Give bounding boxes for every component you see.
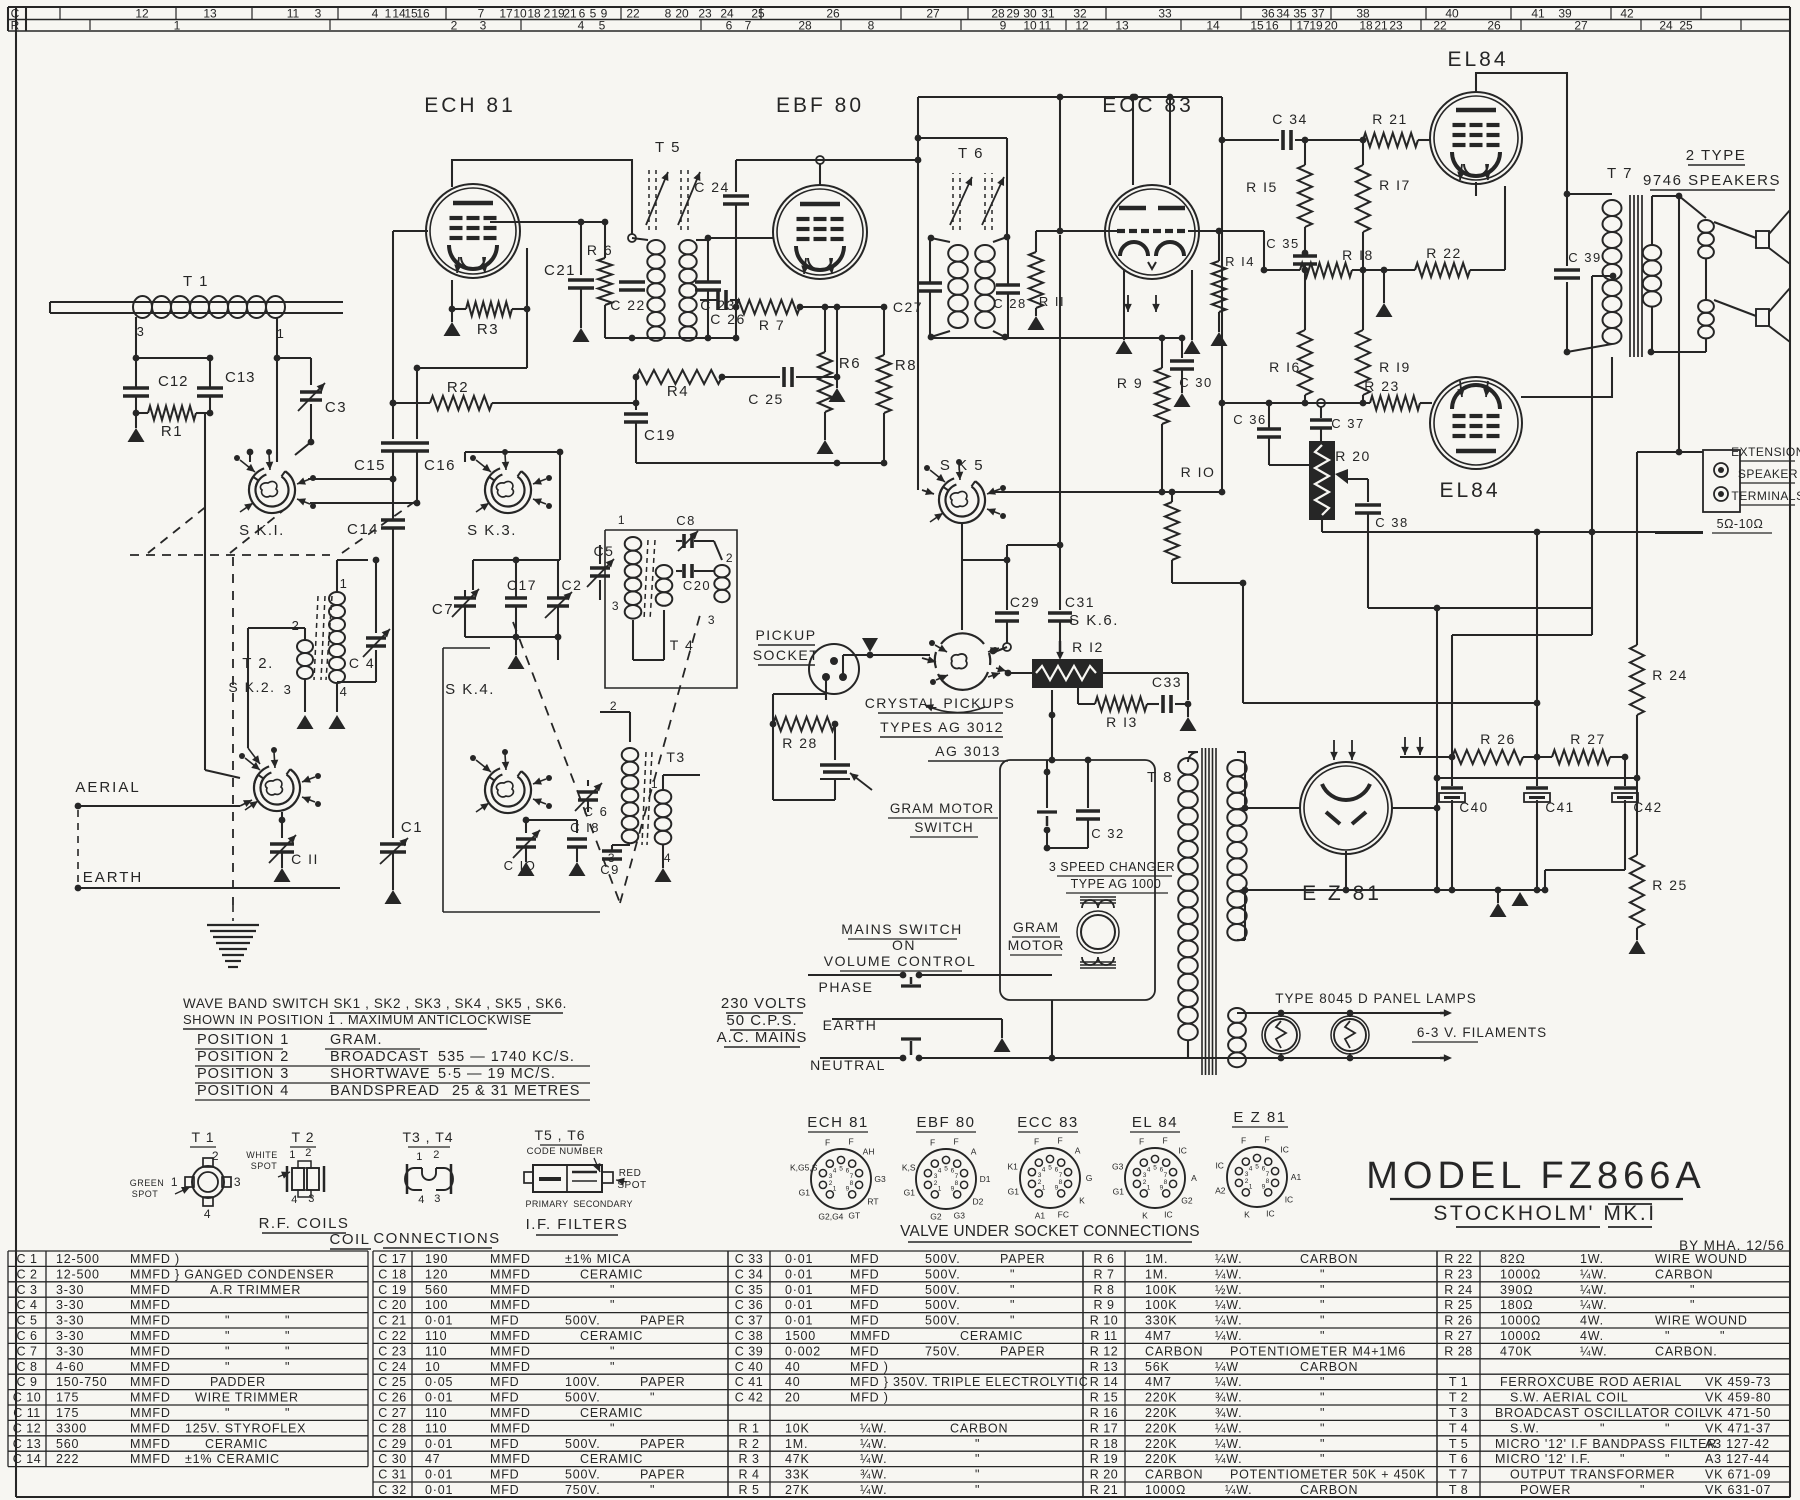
- svg-text:GREEN: GREEN: [130, 1178, 165, 1188]
- svg-text:T 8: T 8: [1147, 769, 1173, 786]
- svg-text:MMFD: MMFD: [130, 1437, 171, 1451]
- svg-text:C1: C1: [401, 819, 423, 836]
- svg-text:9: 9: [846, 1185, 850, 1192]
- svg-text:¼W.: ¼W.: [1580, 1283, 1607, 1297]
- svg-text:C8: C8: [676, 513, 696, 528]
- resistor R13: [1077, 688, 1079, 704]
- svg-text:2: 2: [292, 618, 301, 633]
- svg-text:8: 8: [1059, 1179, 1063, 1186]
- svg-text:": ": [610, 1360, 615, 1374]
- wire bus y608: [1368, 607, 1592, 609]
- svg-text:40: 40: [785, 1375, 801, 1389]
- svg-text:K1: K1: [1007, 1162, 1018, 1172]
- svg-text:3: 3: [137, 324, 146, 339]
- svg-text:¼W.: ¼W.: [860, 1483, 887, 1497]
- svg-text:1: 1: [833, 1185, 837, 1192]
- svg-text:4: 4: [291, 1194, 299, 1206]
- svg-text:27: 27: [926, 7, 940, 21]
- svg-text:5: 5: [839, 1166, 843, 1173]
- switch SK6 contacts: [935, 645, 947, 652]
- capacitor C41: [1536, 757, 1538, 786]
- arrow C31 into R12: [1056, 652, 1064, 660]
- svg-text:C 35: C 35: [735, 1283, 763, 1297]
- svg-text:R 7: R 7: [1094, 1267, 1115, 1281]
- svg-text:C7: C7: [432, 601, 454, 618]
- svg-text:GRAM.: GRAM.: [330, 1032, 383, 1048]
- svg-text:BY MHA. 12/56: BY MHA. 12/56: [1679, 1238, 1785, 1253]
- svg-text:R 18: R 18: [1090, 1437, 1118, 1451]
- svg-text:1W.: 1W.: [1580, 1252, 1604, 1266]
- svg-text:CARBON: CARBON: [1145, 1344, 1203, 1358]
- wire EBF80 down SK5: [917, 97, 919, 478]
- svg-text:G1: G1: [904, 1187, 916, 1197]
- svg-text:MMFD: MMFD: [130, 1375, 171, 1389]
- svg-text:¾W.: ¾W.: [860, 1468, 887, 1482]
- svg-text:R 9: R 9: [1094, 1298, 1115, 1312]
- wire earth dashed: [77, 810, 79, 884]
- svg-text:175: 175: [56, 1391, 79, 1405]
- svg-text:A3 127-42: A3 127-42: [1705, 1437, 1770, 1451]
- svg-text:R 6: R 6: [1094, 1252, 1115, 1266]
- wire ECC83 grid up: [1059, 97, 1061, 231]
- svg-text:T 7: T 7: [1607, 165, 1633, 182]
- resistor R21: [1363, 133, 1418, 147]
- gram motor switch: [1044, 769, 1051, 776]
- svg-text:VK 471-50: VK 471-50: [1705, 1406, 1771, 1420]
- gram motor windings: [1082, 900, 1114, 908]
- svg-text:26: 26: [1487, 19, 1501, 33]
- svg-text:6: 6: [726, 19, 733, 33]
- svg-text:MICRO '12' I.F.: MICRO '12' I.F.: [1495, 1452, 1591, 1466]
- wire ECC83 cathode grounds: [1123, 270, 1125, 340]
- resistor R7: [733, 304, 740, 311]
- heater arrows right pair: [1404, 737, 1406, 755]
- svg-text:BROADCAST OSCILLATOR COIL: BROADCAST OSCILLATOR COIL: [1495, 1406, 1707, 1420]
- wire pickup to SK6: [843, 654, 870, 656]
- capacitor C21: [580, 222, 582, 275]
- resistor R18: [1300, 263, 1352, 277]
- svg-text:3: 3: [234, 1175, 242, 1189]
- wire C29 to SK6: [997, 647, 1007, 651]
- svg-text:5Ω-10Ω: 5Ω-10Ω: [1717, 517, 1764, 531]
- svg-text:": ": [1600, 1421, 1605, 1435]
- svg-text:4: 4: [340, 684, 349, 699]
- svg-text:R 15: R 15: [1090, 1391, 1118, 1405]
- svg-text:R 16: R 16: [1090, 1406, 1118, 1420]
- svg-text:¼W.: ¼W.: [1580, 1344, 1607, 1358]
- svg-text:¼W.: ¼W.: [1215, 1437, 1242, 1451]
- wire EBF80 anode up: [819, 160, 821, 185]
- switch SK5: [939, 481, 985, 523]
- wire below C16: [416, 452, 418, 503]
- wire ECH81 grid3 bus: [490, 221, 605, 223]
- wire C2 down: [557, 637, 559, 660]
- transformer T2 core dashes: [314, 596, 318, 680]
- svg-text:C 17: C 17: [378, 1252, 406, 1266]
- svg-text:3-30: 3-30: [56, 1329, 84, 1343]
- svg-text:C 7: C 7: [17, 1344, 38, 1358]
- wire T1 pin3 to C13: [136, 357, 210, 359]
- wire T2 pin3 down: [304, 678, 306, 712]
- svg-text:C 34: C 34: [1272, 111, 1308, 127]
- svg-text:R I4: R I4: [1225, 254, 1255, 269]
- svg-text:±1% MICA: ±1% MICA: [565, 1252, 631, 1266]
- svg-text:C41: C41: [1545, 800, 1574, 815]
- pickup socket: [809, 644, 859, 694]
- svg-text:MMFD: MMFD: [130, 1421, 171, 1435]
- svg-text:3-30: 3-30: [56, 1314, 84, 1328]
- svg-text:": ": [1320, 1375, 1325, 1389]
- svg-text:C 1: C 1: [17, 1252, 38, 1266]
- svg-text:": ": [1665, 1421, 1670, 1435]
- svg-text:C 13: C 13: [13, 1437, 41, 1451]
- svg-text:": ": [1320, 1283, 1325, 1297]
- svg-text:R 21: R 21: [1090, 1483, 1118, 1497]
- wire into box: [1051, 690, 1053, 760]
- wire T2 pin4 down: [336, 682, 338, 712]
- wire bus y635: [1452, 634, 1592, 636]
- resistor R1: [136, 412, 148, 414]
- svg-text:T3: T3: [666, 749, 685, 765]
- svg-text:C2: C2: [562, 577, 583, 593]
- svg-text:": ": [1010, 1267, 1015, 1281]
- svg-text:IC: IC: [1164, 1210, 1173, 1220]
- svg-text:9: 9: [951, 1185, 955, 1192]
- svg-text:15: 15: [1250, 19, 1264, 33]
- capacitor C13: [197, 386, 223, 390]
- svg-text:FC: FC: [1058, 1210, 1069, 1220]
- transformer T1 coil: [133, 296, 152, 318]
- resistor R3: [449, 306, 456, 313]
- capacitor C11 trimmer: [270, 842, 294, 846]
- svg-text:22: 22: [626, 7, 640, 21]
- svg-text:330K: 330K: [1145, 1314, 1177, 1328]
- svg-text:C 6: C 6: [17, 1329, 38, 1343]
- svg-text:4: 4: [1249, 1166, 1253, 1173]
- wire T2 pin1 up: [336, 560, 338, 592]
- wire HT bus y532: [1322, 531, 1703, 533]
- capacitor C26: [716, 290, 720, 310]
- svg-text:RED: RED: [619, 1168, 642, 1179]
- wire ECC83 anode up: [1132, 97, 1134, 185]
- svg-text:G1: G1: [1113, 1186, 1125, 1196]
- svg-text:10K: 10K: [785, 1421, 810, 1435]
- wire below C14 long vertical: [392, 529, 394, 838]
- svg-text:": ": [1320, 1452, 1325, 1466]
- resistor R4: [633, 374, 640, 381]
- svg-text:3: 3: [612, 599, 620, 613]
- svg-text:500V.: 500V.: [925, 1314, 961, 1328]
- svg-text:T 8: T 8: [1449, 1483, 1468, 1497]
- svg-text:SPOT: SPOT: [251, 1161, 278, 1171]
- svg-text:A1: A1: [1035, 1211, 1046, 1221]
- panel lamp 2: [1334, 1019, 1366, 1051]
- wire EL84 cathode: [1475, 182, 1477, 196]
- parts table grid: [8, 1250, 368, 1252]
- svg-text:": ": [285, 1406, 290, 1420]
- svg-text:WAVE BAND SWITCH SK1 , SK2: WAVE BAND SWITCH SK1 , SK2 , SK3 , SK4 ,…: [183, 996, 567, 1011]
- svg-text:D2: D2: [973, 1196, 984, 1206]
- wire SK3 bus upper: [473, 559, 560, 561]
- svg-text:MFD: MFD: [490, 1314, 519, 1328]
- wire T1 pin3 down: [135, 317, 137, 387]
- switch SK4: [485, 771, 531, 813]
- svg-text:": ": [225, 1314, 230, 1328]
- wire C3 to SK1: [310, 404, 312, 442]
- valve ECC83: [1105, 185, 1199, 279]
- earth wire: [75, 885, 82, 892]
- svg-text:2: 2: [451, 19, 458, 33]
- svg-text:PAPER: PAPER: [640, 1314, 685, 1328]
- svg-text:CARBON: CARBON: [1300, 1360, 1358, 1374]
- svg-text:C17: C17: [507, 577, 537, 593]
- svg-text:EL84: EL84: [1447, 48, 1508, 71]
- svg-text:2: 2: [726, 551, 734, 565]
- svg-text:WHITE: WHITE: [246, 1150, 278, 1160]
- svg-text:C 28: C 28: [378, 1421, 406, 1435]
- svg-text:G: G: [1086, 1173, 1093, 1183]
- capacitor C15: [381, 441, 405, 445]
- svg-text:4: 4: [372, 7, 379, 21]
- transformer T2 secondary coil: [297, 640, 313, 653]
- capacitor C10 trimmer: [516, 837, 536, 841]
- svg-text:PAPER: PAPER: [1000, 1344, 1045, 1358]
- wire R18 bus: [1264, 269, 1300, 271]
- svg-text:0·01: 0·01: [785, 1298, 813, 1312]
- svg-text:2: 2: [1038, 1179, 1042, 1186]
- svg-text:14: 14: [1206, 19, 1220, 33]
- transformer T6 trimmer arrows: [952, 173, 954, 230]
- svg-text:E Z 81: E Z 81: [1302, 882, 1382, 905]
- svg-text:T 2: T 2: [1449, 1391, 1468, 1405]
- svg-text:0·01: 0·01: [425, 1391, 453, 1405]
- svg-text:R8: R8: [895, 357, 917, 374]
- svg-text:": ": [975, 1468, 980, 1482]
- svg-text:R 23: R 23: [1364, 378, 1400, 394]
- svg-text:C 22: C 22: [378, 1329, 406, 1343]
- svg-text:1: 1: [1042, 1184, 1046, 1191]
- svg-text:STOCKHOLM' MK.I: STOCKHOLM' MK.I: [1433, 1202, 1656, 1225]
- svg-text:EXTENSION: EXTENSION: [1731, 445, 1800, 459]
- svg-text:0·01: 0·01: [785, 1252, 813, 1266]
- switch SK3: [485, 471, 531, 513]
- svg-text:T 2: T 2: [292, 1129, 315, 1145]
- svg-text:OUTPUT TRANSFORMER: OUTPUT TRANSFORMER: [1510, 1468, 1675, 1482]
- wire ECC83 grid bus: [1036, 230, 1117, 232]
- svg-text:R IO: R IO: [1181, 464, 1216, 480]
- svg-text:F: F: [1162, 1135, 1167, 1145]
- svg-text:18: 18: [1359, 19, 1373, 33]
- svg-text:": ": [1010, 1298, 1015, 1312]
- svg-text:10: 10: [1023, 19, 1037, 33]
- svg-text:A: A: [1075, 1145, 1081, 1155]
- svg-text:C 21: C 21: [378, 1314, 406, 1328]
- svg-text:MFD: MFD: [490, 1375, 519, 1389]
- svg-text:": ": [1640, 1483, 1645, 1497]
- svg-text:G2: G2: [1181, 1195, 1193, 1205]
- speaker 2 horn: [1756, 309, 1769, 326]
- svg-text:K: K: [1079, 1195, 1085, 1205]
- svg-text:C 11: C 11: [13, 1406, 40, 1420]
- svg-text:R I9: R I9: [1379, 359, 1411, 375]
- capacitor C40: [1451, 757, 1453, 786]
- svg-text:27: 27: [1574, 19, 1588, 33]
- svg-text:R 26: R 26: [1444, 1314, 1472, 1328]
- svg-text:": ": [1665, 1329, 1670, 1343]
- valve EZ81: [1300, 762, 1392, 854]
- svg-text:C 32: C 32: [378, 1483, 406, 1497]
- svg-text:": ": [1320, 1329, 1325, 1343]
- wire C7 C17 C2 bottoms: [464, 607, 466, 637]
- svg-text:T 6: T 6: [958, 145, 984, 162]
- svg-text:MFD: MFD: [490, 1483, 519, 1497]
- svg-text:C12: C12: [158, 373, 189, 390]
- svg-text:": ": [1690, 1283, 1695, 1297]
- transformer T6 secondary coil: [1004, 234, 1011, 241]
- svg-text:4W.: 4W.: [1580, 1314, 1604, 1328]
- svg-text:C 31: C 31: [378, 1468, 406, 1482]
- svg-text:220K: 220K: [1145, 1452, 1177, 1466]
- svg-text:3-30: 3-30: [56, 1283, 84, 1297]
- svg-text:": ": [610, 1298, 615, 1312]
- svg-text:C 35: C 35: [1266, 236, 1299, 251]
- svg-text:C 34: C 34: [735, 1267, 763, 1281]
- svg-text:POTENTIOMETER M4+1M6: POTENTIOMETER M4+1M6: [1230, 1344, 1406, 1358]
- svg-text:¼W.: ¼W.: [1215, 1421, 1242, 1435]
- svg-text:C 30: C 30: [1179, 375, 1212, 390]
- svg-text:IC: IC: [1215, 1161, 1224, 1171]
- valve EZ81 heater arrows: [1333, 740, 1335, 760]
- transformer T7 primary: [1564, 191, 1571, 198]
- svg-text:175: 175: [56, 1406, 79, 1420]
- svg-text:28: 28: [798, 19, 812, 33]
- wire T7 sec top: [1652, 195, 1679, 197]
- svg-text:R 17: R 17: [1090, 1421, 1118, 1435]
- svg-text:500V.: 500V.: [565, 1314, 601, 1328]
- wire SK1 right lower: [310, 502, 417, 504]
- svg-text:C 4: C 4: [17, 1298, 38, 1312]
- svg-text:C 36: C 36: [1233, 412, 1266, 427]
- svg-text:C II: C II: [291, 851, 319, 867]
- svg-text:1: 1: [385, 7, 392, 21]
- wire SK4 contacts: [525, 820, 527, 833]
- capacitor C27: [918, 281, 942, 285]
- svg-text:C13: C13: [225, 369, 256, 386]
- svg-text:MMFD: MMFD: [490, 1452, 531, 1466]
- svg-text:T 2.: T 2.: [242, 655, 274, 672]
- switch SK1: [249, 471, 295, 513]
- svg-text:R 22: R 22: [1426, 245, 1462, 261]
- svg-text:": ": [975, 1437, 980, 1451]
- transformer T5 primary coil: [632, 238, 648, 240]
- svg-text:C 38: C 38: [735, 1329, 763, 1343]
- svg-text:180Ω: 180Ω: [1500, 1298, 1533, 1312]
- svg-text:9746 SPEAKERS: 9746 SPEAKERS: [1643, 172, 1781, 189]
- svg-text:¼W.: ¼W.: [1215, 1314, 1242, 1328]
- svg-text:R 23: R 23: [1444, 1267, 1472, 1281]
- svg-text:20: 20: [1324, 19, 1338, 33]
- svg-text:MMFD: MMFD: [130, 1314, 171, 1328]
- wire R28 right pickup cap: [834, 724, 836, 760]
- svg-text:A.C. MAINS: A.C. MAINS: [717, 1029, 808, 1046]
- svg-text:R 27: R 27: [1444, 1329, 1472, 1343]
- wire EBF80 to T6: [918, 137, 1007, 139]
- socket diagram ECC83: [1020, 1148, 1080, 1208]
- capacitor C9: [602, 849, 622, 853]
- svg-text:5: 5: [599, 19, 606, 33]
- svg-text:6-3 V. FILAMENTS: 6-3 V. FILAMENTS: [1417, 1025, 1547, 1040]
- transformer T8 HT secondary: [1227, 760, 1246, 776]
- svg-text:A3 127-44: A3 127-44: [1705, 1452, 1770, 1466]
- svg-text:1: 1: [280, 1032, 290, 1048]
- svg-text:500V.: 500V.: [925, 1298, 961, 1312]
- svg-text:T 5: T 5: [655, 139, 681, 156]
- resistor R11: [1035, 231, 1037, 252]
- svg-text:C I8: C I8: [570, 820, 600, 835]
- svg-text:3300: 3300: [56, 1421, 87, 1435]
- svg-text:20: 20: [785, 1391, 801, 1405]
- wire C7 C17 C2 tops: [464, 590, 466, 597]
- svg-text:12: 12: [135, 7, 149, 21]
- svg-text:R.F. COILS: R.F. COILS: [259, 1215, 350, 1232]
- svg-text:CRYSTAL PICKUPS: CRYSTAL PICKUPS: [865, 695, 1016, 711]
- wire EBF80 bus right: [918, 96, 1222, 98]
- svg-text:18: 18: [527, 7, 541, 21]
- capacitor C23: [707, 238, 709, 281]
- gram motor: [1081, 915, 1115, 949]
- svg-text:3 SPEED CHANGER: 3 SPEED CHANGER: [1049, 860, 1175, 874]
- svg-text:R 24: R 24: [1652, 667, 1688, 683]
- ground below C10: [525, 848, 527, 862]
- enclosure box T3 SK4: [442, 648, 444, 912]
- capacitor C12: [123, 386, 149, 390]
- wire T2 pin2: [304, 628, 306, 640]
- svg-text:T 5: T 5: [1449, 1437, 1468, 1451]
- svg-text:R 9: R 9: [1117, 375, 1143, 391]
- svg-text:1M.: 1M.: [1145, 1267, 1168, 1281]
- svg-text:": ": [285, 1314, 290, 1328]
- capacitor C34: [1281, 130, 1285, 150]
- svg-text:120: 120: [425, 1267, 448, 1281]
- svg-text:G1: G1: [1008, 1186, 1020, 1196]
- svg-text:2: 2: [544, 7, 551, 21]
- wire grid vertical left: [392, 231, 394, 439]
- svg-text:20: 20: [675, 7, 689, 21]
- svg-text:": ": [1320, 1437, 1325, 1451]
- border frame: [15, 7, 17, 1497]
- svg-text:R2: R2: [447, 379, 469, 396]
- svg-text:MMFD: MMFD: [130, 1298, 171, 1312]
- svg-text:2: 2: [433, 1149, 441, 1161]
- svg-text:40: 40: [1445, 7, 1459, 21]
- svg-text:C 26: C 26: [710, 311, 746, 327]
- svg-text:CARBON: CARBON: [950, 1421, 1008, 1435]
- svg-text:8: 8: [1164, 1179, 1168, 1186]
- svg-text:VOLUME CONTROL: VOLUME CONTROL: [824, 953, 976, 969]
- svg-text:17: 17: [1296, 19, 1310, 33]
- wire C1 ground: [392, 853, 394, 890]
- svg-text:R 14: R 14: [1090, 1375, 1118, 1389]
- svg-text:": ": [225, 1360, 230, 1374]
- svg-text:1: 1: [340, 576, 349, 591]
- svg-text:R I5: R I5: [1246, 179, 1278, 195]
- svg-text:VK 459-73: VK 459-73: [1705, 1375, 1771, 1389]
- capacitor C19: [635, 377, 637, 410]
- svg-text:2: 2: [280, 1049, 290, 1065]
- wire C25 right: [796, 376, 837, 378]
- svg-text:13: 13: [1115, 19, 1129, 33]
- wire C34 to R21: [1295, 139, 1362, 141]
